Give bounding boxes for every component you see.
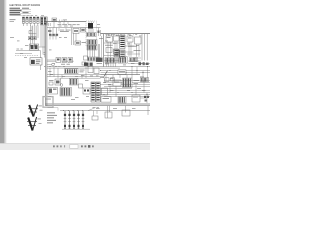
frame right-section left border — [102, 34, 104, 67]
right bus line 2 — [101, 72, 151, 74]
bus drops mid-bottom — [92, 111, 98, 120]
box U10 — [102, 88, 108, 95]
label SN1 — [82, 41, 87, 44]
terminal strip T1 ticks — [50, 36, 58, 40]
wire mesh right — [104, 43, 135, 56]
ground stack G1 — [64, 111, 67, 129]
wire S1 drop — [53, 22, 55, 28]
legend row 2 — [47, 114, 57, 117]
footer toolbar bar — [0, 143, 150, 150]
key switch S1 — [52, 18, 57, 22]
label M2 — [49, 79, 54, 82]
relay K3 — [29, 17, 32, 26]
cab harness dashed enclosure — [86, 21, 97, 46]
lamp L3 — [68, 58, 73, 63]
tick marks near frame — [44, 52, 46, 55]
frame left border — [45, 22, 47, 106]
label bits below border — [106, 33, 137, 36]
wire x101 drop — [101, 36, 103, 57]
bus diagonal jog — [88, 108, 95, 111]
harness mark H1 — [28, 105, 43, 117]
connector CN16 — [123, 78, 133, 88]
connector CN20 — [120, 35, 125, 49]
label row second — [60, 29, 71, 32]
box K7b — [49, 82, 53, 85]
circle sym C1 — [60, 84, 63, 87]
info table row 4 — [10, 14, 32, 16]
wire lamp feed — [47, 59, 56, 61]
wire cluster x98 — [98, 28, 101, 36]
hatch small HS2 — [141, 78, 149, 82]
bus line y74.6 centre — [47, 74, 140, 76]
footer nav prev button — [57, 145, 59, 147]
footer nav next button — [81, 145, 83, 147]
wire verticals right-mid — [132, 67, 148, 82]
bus line y78.2 — [60, 77, 101, 79]
lamp L2 — [62, 58, 67, 63]
bottom bus 2 — [95, 94, 150, 96]
harness dashed line — [15, 55, 38, 57]
wire x134-141 links — [127, 54, 141, 61]
box B8 — [83, 88, 90, 94]
wire mesh lower — [108, 83, 147, 103]
relay K4 — [33, 17, 36, 26]
wire bus upper-left — [29, 26, 37, 37]
bus line y61 left — [47, 60, 56, 62]
bus line y60.8 right — [104, 60, 119, 62]
box U6 — [114, 49, 119, 54]
wire drop w1 — [49, 28, 51, 34]
footer nav glyph — [60, 145, 62, 147]
connector CN22 — [118, 57, 128, 63]
dark blob DB1 — [84, 63, 93, 66]
frame top border right — [101, 33, 151, 35]
wires U3 U4 drops — [129, 42, 139, 57]
resistor block R1 — [73, 29, 79, 34]
box U8 — [94, 68, 99, 74]
wire below frame d — [147, 106, 149, 115]
label LBL4 — [128, 45, 137, 48]
legend row 5 — [47, 121, 53, 124]
wires centre-top drops3 — [59, 22, 68, 31]
right-bottom bus y86.6 — [104, 86, 150, 88]
tiny label left margin2 — [10, 36, 14, 39]
dark bits right y63 — [139, 62, 149, 65]
wire below frame a — [107, 106, 109, 118]
battery B1 — [25, 44, 39, 50]
label left margin — [10, 19, 16, 22]
wire drop w2 — [52, 28, 54, 34]
footer dark button — [88, 145, 90, 148]
footer nav glyph2 — [92, 145, 94, 147]
viewer gray margin strip — [0, 0, 4, 150]
connector CN14 — [65, 69, 79, 74]
svg-text:ELECTRICAL CIRCUIT DIAGRAM: ELECTRICAL CIRCUIT DIAGRAM — [10, 3, 41, 7]
wires centre drops2 — [50, 67, 86, 79]
wire bundle from relay row — [30, 26, 44, 58]
bus line y76.6 — [47, 76, 103, 78]
bottom bus 1 — [95, 92, 150, 94]
terminal strip T1 — [49, 34, 58, 36]
starter motor M1 — [30, 58, 42, 70]
label CN14 right — [80, 70, 85, 73]
tick marks left of S1 — [48, 23, 51, 32]
box U7 — [88, 67, 93, 73]
fuse box FB1 — [40, 17, 47, 25]
connector CN10 — [81, 28, 86, 32]
connector CN23 — [91, 82, 95, 102]
right-bottom bus y82.6 — [104, 82, 150, 84]
title ELECTRICAL CIRCUIT DIAGRAM — [10, 3, 41, 7]
legend row 4 — [47, 119, 56, 122]
long bus below frame — [60, 110, 150, 112]
info table row 2 — [10, 10, 32, 12]
junction box JB1 — [118, 70, 126, 75]
relay K2 — [26, 17, 29, 26]
tiny box TB2 — [111, 78, 115, 81]
box U11 — [101, 97, 111, 103]
relay K6 coil leads — [89, 21, 94, 23]
frame top border left — [45, 21, 86, 23]
sensor box SN1 — [75, 41, 81, 45]
right bus line 3 — [101, 74, 141, 76]
footer page input box — [70, 145, 78, 149]
label LBL2 — [60, 30, 69, 33]
relay K5 — [37, 17, 40, 26]
footer nav last button — [85, 145, 87, 147]
info table row 1 — [10, 8, 32, 10]
connector CN13 — [88, 57, 99, 61]
wire battery positive — [15, 47, 45, 58]
scattered wire labels — [17, 20, 146, 109]
wires right-top drops — [107, 34, 119, 36]
tick row legend — [48, 108, 59, 111]
labels near jog — [93, 106, 99, 109]
frame bottom border — [45, 104, 150, 106]
label bits right mid — [131, 61, 147, 65]
connector CN20b — [120, 50, 125, 58]
ground baseline — [62, 128, 90, 130]
legend corner box — [43, 97, 53, 108]
dark blob DB2 — [96, 58, 103, 62]
right bus line 1 — [101, 70, 151, 72]
legend row 1 — [47, 111, 55, 114]
page background — [0, 0, 150, 150]
box U14 — [122, 110, 130, 116]
right-bottom bus y84.6 — [101, 84, 151, 86]
footer nav sep — [64, 145, 65, 147]
right-bottom bus y90.6 — [95, 90, 150, 92]
diode block D1 — [28, 37, 32, 40]
box U13 — [105, 112, 112, 118]
connector CN18 — [118, 97, 126, 103]
wire R1 drops — [72, 28, 77, 45]
top row label marks — [23, 14, 44, 17]
relay box K7 — [48, 88, 58, 95]
label LBL5 — [134, 49, 141, 52]
dark bits lower right corner — [144, 96, 149, 102]
box U12 — [132, 95, 140, 102]
wire drop w3 — [55, 28, 57, 34]
connector CN21 — [105, 58, 117, 64]
tiny box TB1 — [105, 78, 110, 82]
label bus row — [58, 24, 80, 26]
box U4 — [135, 37, 142, 44]
lamp L1 — [56, 58, 61, 63]
ground stack G4 — [77, 111, 80, 129]
box U9 — [113, 80, 121, 86]
box B5 — [84, 56, 88, 60]
ground stack G5 — [82, 111, 85, 129]
connector CN17 — [60, 88, 72, 97]
info table row 3 — [10, 12, 32, 14]
label lamp row — [61, 63, 70, 66]
wires U1 U2 to bus — [108, 41, 117, 58]
label DB2 — [97, 62, 103, 65]
tick row below right border — [106, 34, 137, 36]
wire drops right-bottom — [106, 75, 144, 97]
centre bus line 1 — [47, 66, 150, 68]
box U3 — [127, 36, 133, 42]
bus line y63.4 right — [128, 62, 150, 64]
legend row 3 — [47, 116, 54, 119]
connector CN12b — [87, 45, 97, 50]
horn symbol HN1 — [47, 63, 54, 66]
right-bottom bus y88.6 — [101, 88, 133, 90]
footer nav first-page button — [53, 145, 55, 147]
bus wire key-switch — [47, 27, 101, 29]
box U2 — [114, 36, 120, 41]
wire below frame c — [125, 106, 127, 113]
box B6 — [82, 62, 86, 65]
connector CN24 — [96, 82, 100, 102]
bottom bus 3 — [104, 96, 150, 98]
wire junction dots — [50, 66, 148, 111]
connector CN15 — [70, 79, 79, 86]
diode block D2 — [33, 37, 37, 40]
wire below frame b — [109, 106, 111, 112]
label bus mid — [62, 60, 74, 63]
diagonal wire — [103, 71, 108, 78]
connector CN11 — [87, 33, 97, 37]
relay K1 — [22, 17, 25, 26]
centre bus line 2 — [47, 67, 120, 69]
ground stack G2 — [68, 111, 71, 129]
wires below CN12 — [88, 45, 95, 57]
right-bottom bus y80.6 — [104, 80, 150, 82]
ground stack G3 — [73, 111, 76, 129]
right edge wires — [142, 34, 147, 61]
box U1 — [106, 36, 113, 42]
harness mark H2 — [27, 117, 42, 131]
connector CN25 dark — [114, 49, 119, 56]
box M2 — [55, 79, 61, 85]
box B7 — [79, 84, 83, 88]
wire CN21 drops — [107, 62, 116, 67]
label LBL3 — [105, 44, 113, 47]
box U5 — [106, 48, 112, 53]
label CN16 right — [134, 80, 140, 84]
hatch small HS1 — [130, 58, 138, 62]
connector CN12 — [87, 40, 97, 45]
relay K6 — [88, 23, 93, 33]
thick wire x99 — [98, 44, 100, 62]
ticks above top line — [60, 20, 65, 22]
